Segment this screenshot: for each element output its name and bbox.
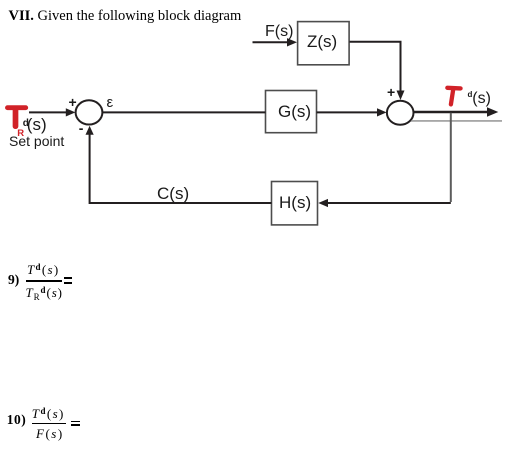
question 10 denominator — [36, 427, 64, 440]
label F(s) — [265, 24, 293, 40]
question 10 equals — [71, 421, 80, 423]
gray shadow line under output — [411, 120, 502, 122]
wire H(s) to summing junction 1 — [86, 126, 272, 203]
label G(s) — [278, 103, 311, 120]
label Z(s) — [307, 33, 337, 50]
block G(s) — [266, 91, 317, 133]
label plus at summing junction 1 — [69, 95, 77, 109]
label H(s) — [279, 194, 311, 211]
question 9 fraction bar — [26, 280, 63, 281]
label C(s) — [157, 185, 189, 202]
wire feedback into H(s) — [318, 199, 451, 207]
label (s) right — [472, 91, 491, 107]
label (s) left — [27, 116, 47, 133]
block H(s) — [272, 182, 318, 225]
red output T symbol — [447, 88, 460, 105]
summing junction 2 — [387, 101, 414, 125]
label Set point — [9, 134, 64, 148]
question 9 denominator — [26, 286, 63, 299]
question 9 number — [8, 273, 19, 287]
wire Z(s) output to summing junction 2 — [350, 42, 405, 100]
question 10 numerator — [32, 407, 65, 420]
label superscript d left — [23, 119, 29, 129]
wire set-point input arrow — [29, 108, 75, 116]
label superscript d right — [468, 91, 473, 99]
label minus at summing junction 1 — [79, 121, 84, 135]
title — [9, 9, 242, 24]
summing junction 1 — [76, 100, 103, 124]
wire output arrow — [413, 107, 498, 117]
label red subscript R — [17, 129, 24, 139]
red set-point T symbol — [8, 108, 26, 127]
question 10 number — [7, 413, 27, 427]
wire epsilon to G(s) — [102, 111, 265, 113]
question 9 numerator — [27, 263, 59, 276]
wire F(s) input arrow — [253, 38, 298, 46]
label epsilon — [107, 95, 114, 110]
label plus at summing junction 2 — [387, 85, 395, 99]
block Z(s) — [298, 22, 350, 65]
question 10 fraction bar — [32, 423, 67, 424]
wire G(s) to summing junction 2 — [317, 108, 387, 116]
question 9 equals — [64, 277, 72, 279]
gray vertical tap wire — [450, 113, 452, 202]
